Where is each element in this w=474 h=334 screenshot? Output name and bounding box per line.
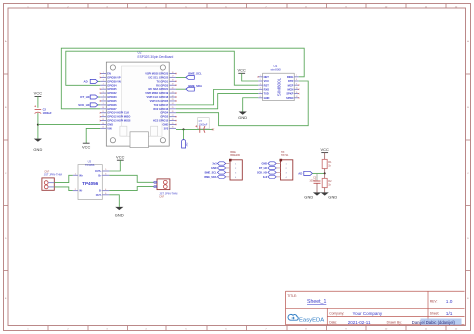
svg-text:17: 17 — [172, 76, 174, 78]
wire VCC to R1 — [324, 153, 326, 160]
ground GND (U1) — [238, 112, 247, 120]
svg-text:25: 25 — [172, 107, 174, 109]
capacitor C3 100nF — [309, 176, 320, 183]
svg-text:3: 3 — [105, 174, 106, 176]
svg-text:Date:: Date: — [329, 320, 337, 324]
svg-text:NET: NET — [264, 75, 270, 79]
svg-text:11: 11 — [296, 92, 298, 94]
svg-text:1: 1 — [260, 75, 261, 77]
svg-text:26: 26 — [172, 111, 174, 113]
svg-text:DTR: DTR — [288, 79, 293, 83]
svg-text:GPIO25: GPIO25 — [107, 99, 117, 103]
svg-text:Danijel Dabic (ddanijel): Danijel Dabic (ddanijel) — [412, 320, 456, 325]
header HX711 (HX) — [257, 151, 293, 180]
svg-text:VCC: VCC — [34, 91, 43, 96]
wire AD to node — [312, 172, 324, 174]
svg-text:23: 23 — [172, 99, 174, 101]
svg-text:8: 8 — [296, 79, 297, 81]
wire U1.RST to U2.GPIO34 (inner loop) — [66, 51, 258, 85]
svg-text:8: 8 — [103, 99, 104, 101]
power flag VCC (divider) — [320, 147, 329, 153]
svg-text:RX2 GPIO16: RX2 GPIO16 — [153, 107, 168, 111]
net flag AD (GPIO39) — [84, 79, 101, 83]
title block — [286, 291, 465, 325]
svg-text:TITLE:: TITLE: — [287, 294, 297, 298]
svg-text:1/1: 1/1 — [446, 311, 453, 317]
svg-text:VSPI CS GPIO5: VSPI CS GPIO5 — [150, 99, 169, 103]
svg-text:6: 6 — [260, 96, 261, 98]
svg-text:BME_SCL: BME_SCL — [205, 171, 217, 174]
svg-text:GND: GND — [304, 194, 313, 199]
svg-text:CN?: CN? — [159, 195, 164, 198]
svg-text:3v3: 3v3 — [212, 163, 217, 166]
capacitor C2 1000uF — [34, 105, 52, 115]
net flag BME_SCL (GPIO22) — [176, 71, 202, 79]
net flag SCK_HX (GPIO26) — [78, 103, 100, 107]
svg-text:GPIO14 HSPI CLK: GPIO14 HSPI CLK — [107, 111, 129, 115]
wire U2.TX2 to U1.RXD — [176, 89, 258, 104]
ground GND (C3) — [304, 192, 321, 199]
svg-text:2021-02-11: 2021-02-11 — [348, 320, 371, 325]
wire U2.3V3 to C7 — [176, 128, 213, 130]
svg-text:BME_SDA: BME_SDA — [188, 84, 202, 88]
svg-text:sim800l: sim800l — [271, 68, 282, 72]
svg-text:SPKN: SPKN — [286, 96, 293, 100]
svg-text:GPIO36 VP: GPIO36 VP — [107, 75, 121, 79]
svg-text:AD: AD — [84, 79, 88, 83]
svg-text:3v3: 3v3 — [186, 142, 189, 147]
svg-text:IN-: IN- — [79, 190, 82, 193]
svg-text:2: 2 — [260, 79, 261, 81]
svg-text:5: 5 — [260, 92, 261, 94]
capacitor C7 1000uF — [195, 118, 209, 133]
svg-text:7: 7 — [296, 75, 297, 77]
svg-text:20: 20 — [172, 87, 174, 89]
svg-text:28: 28 — [172, 119, 174, 121]
wire node to R2 — [324, 173, 326, 178]
svg-text:19: 19 — [172, 84, 174, 86]
svg-text:EN: EN — [107, 72, 111, 76]
net flag AD (divider) — [298, 171, 312, 175]
svg-text:22: 22 — [172, 95, 174, 97]
svg-text:3v3: 3v3 — [263, 176, 268, 179]
wire U3.B- to battery pin2 — [109, 187, 153, 191]
wire CN? pin1 to U3.IN+ — [54, 175, 73, 182]
svg-text:13: 13 — [102, 119, 104, 121]
svg-text:3V3: 3V3 — [164, 126, 169, 130]
svg-text:Company:: Company: — [329, 311, 344, 315]
svg-text:I2C SDA GPIO21: I2C SDA GPIO21 — [148, 87, 168, 91]
svg-text:5: 5 — [105, 169, 106, 171]
wire R1 to node — [324, 169, 326, 174]
svg-text:TXD: TXD — [264, 92, 269, 96]
wire U3.OUT- to ground — [109, 195, 119, 207]
svg-text:HX711: HX711 — [281, 154, 289, 157]
no-connect mark C7 end — [212, 128, 214, 130]
svg-text:BME_SDA: BME_SDA — [204, 176, 216, 179]
svg-text:GPIO27: GPIO27 — [107, 107, 117, 111]
GSM module U1 SIM800L — [258, 64, 300, 101]
header BME280 (BME) — [204, 151, 242, 180]
svg-text:Drawn By:: Drawn By: — [387, 320, 402, 324]
junction 3V3 node — [183, 128, 185, 130]
svg-text:EasyEDA: EasyEDA — [299, 317, 324, 323]
svg-text:OUT+: OUT+ — [95, 170, 102, 173]
svg-text:U3: U3 — [88, 159, 92, 163]
net flag DT_HX (GPIO33) — [80, 95, 100, 99]
svg-text:9: 9 — [296, 83, 297, 85]
wire U3.B+ to battery pin1 — [109, 175, 153, 182]
ground GND (left rail) — [33, 139, 42, 152]
connector CN? JST (input) — [42, 170, 63, 190]
svg-text:9: 9 — [103, 103, 104, 105]
wire C3 tap — [316, 173, 318, 181]
svg-text:GPIO12 HSPI MISO: GPIO12 HSPI MISO — [107, 115, 130, 119]
svg-text:TP4056: TP4056 — [82, 181, 99, 186]
svg-text:GPIO4: GPIO4 — [160, 111, 168, 115]
svg-text:Sheet:: Sheet: — [430, 311, 440, 315]
svg-text:GND: GND — [238, 115, 247, 120]
svg-text:VSPI CLK GPIO18: VSPI CLK GPIO18 — [147, 95, 169, 99]
ground GND (U3) — [115, 207, 124, 218]
svg-text:DT_HX: DT_HX — [259, 167, 268, 170]
svg-text:GND: GND — [115, 212, 124, 217]
svg-text:VIN: VIN — [107, 126, 111, 130]
svg-text:BME_SCL: BME_SCL — [188, 71, 202, 75]
svg-text:GPIO33: GPIO33 — [107, 95, 117, 99]
svg-text:GND: GND — [328, 194, 337, 199]
svg-text:SPKP: SPKP — [286, 92, 293, 96]
svg-text:GND: GND — [163, 122, 169, 126]
svg-text:29: 29 — [172, 123, 174, 125]
svg-text:3: 3 — [103, 80, 104, 82]
svg-text:11: 11 — [102, 111, 104, 113]
svg-text:1000uF: 1000uF — [43, 111, 52, 115]
svg-text:VCC: VCC — [320, 147, 329, 152]
svg-text:Sheet_1: Sheet_1 — [307, 299, 326, 305]
svg-text:I2C SCL GPIO22: I2C SCL GPIO22 — [149, 75, 169, 79]
svg-text:GND: GND — [262, 163, 268, 166]
wire U2.VIN to VCC — [86, 128, 100, 143]
svg-text:GPIO39 VN: GPIO39 VN — [107, 79, 121, 83]
wire U2.RX2 to U1.TXD — [176, 94, 258, 109]
svg-text:GPIO26: GPIO26 — [107, 103, 117, 107]
svg-text:7: 7 — [103, 95, 104, 97]
svg-text:DT_HX: DT_HX — [80, 95, 89, 99]
connector CN? JST (battery) — [153, 179, 178, 199]
svg-text:ESP32S 30pin DevBoard: ESP32S 30pin DevBoard — [138, 55, 174, 59]
svg-text:18: 18 — [172, 80, 174, 82]
svg-text:30: 30 — [172, 127, 174, 129]
svg-text:B-: B- — [99, 190, 102, 193]
svg-text:MCP: MCP — [288, 83, 294, 87]
svg-text:SIM800L: SIM800L — [277, 77, 282, 96]
svg-text:1: 1 — [75, 174, 76, 176]
svg-text:MCN: MCN — [287, 87, 293, 91]
wire CN? pin2 to U3.IN- — [54, 187, 73, 191]
svg-text:GND: GND — [107, 122, 113, 126]
svg-text:RING: RING — [287, 75, 293, 79]
svg-text:RXD: RXD — [264, 87, 270, 91]
wire VCC to U3.OUT+ — [109, 160, 120, 171]
power flag VCC (VIN, rotated) — [82, 143, 91, 149]
svg-text:GPIO35: GPIO35 — [107, 87, 117, 91]
svg-text:SCK_HX: SCK_HX — [78, 103, 89, 107]
svg-text:IN+: IN+ — [79, 174, 83, 177]
svg-text:15: 15 — [102, 127, 104, 129]
svg-text:RX GPIO3: RX GPIO3 — [156, 83, 169, 87]
svg-text:C?: C? — [199, 119, 203, 123]
svg-text:JST JPIN-THM: JST JPIN-THM — [44, 173, 63, 177]
svg-text:VCC: VCC — [82, 144, 91, 149]
wire C3 to ground — [316, 183, 318, 192]
svg-text:4: 4 — [103, 84, 104, 86]
svg-text:GPIO13 HSPI MOSI: GPIO13 HSPI MOSI — [107, 119, 130, 123]
wire 3V3 to port — [183, 129, 185, 139]
svg-text:3: 3 — [260, 83, 261, 85]
svg-text:10: 10 — [296, 88, 298, 90]
resistor R2 1k — [322, 178, 332, 187]
svg-text:TX2 GPIO17: TX2 GPIO17 — [154, 103, 169, 107]
net port 3v3 — [182, 140, 189, 148]
svg-text:VSPI MOSI GPIO23: VSPI MOSI GPIO23 — [145, 72, 169, 76]
svg-text:6: 6 — [103, 91, 104, 93]
power flag VCC (U3 OUT+) — [116, 154, 125, 160]
svg-text:10: 10 — [102, 107, 104, 109]
svg-text:12: 12 — [102, 115, 104, 117]
svg-text:VCC: VCC — [116, 154, 125, 159]
charger module U3 TP4056 — [73, 159, 110, 199]
ground GND (R2) — [321, 192, 338, 199]
svg-text:TP4056: TP4056 — [85, 163, 95, 167]
ESP32 DevKit module U2 — [100, 51, 177, 148]
wire U2.GPIO4 to U1.DTR — [176, 81, 308, 126]
svg-text:GPIO34: GPIO34 — [107, 83, 117, 87]
svg-text:4: 4 — [105, 189, 106, 191]
svg-text:GPIO2: GPIO2 — [160, 115, 168, 119]
svg-text:2: 2 — [75, 189, 76, 191]
svg-text:5: 5 — [103, 87, 104, 89]
svg-text:1: 1 — [103, 72, 104, 74]
svg-text:HCS GPIO15: HCS GPIO15 — [153, 119, 169, 123]
wire GND rail to U2 GND pin — [38, 124, 100, 126]
junction GND rail — [37, 124, 39, 126]
wire U1.GND to ground — [243, 98, 259, 112]
svg-text:27: 27 — [172, 115, 174, 117]
svg-text:6: 6 — [105, 193, 106, 195]
svg-text:4: 4 — [260, 88, 261, 90]
net flag BME_SDA (GPIO21) — [176, 84, 202, 91]
svg-text:GND: GND — [211, 167, 217, 170]
svg-text:24: 24 — [172, 103, 174, 105]
wire U1.RING to U2.GPIO27 (outer loop) — [61, 48, 304, 109]
svg-text:21: 21 — [172, 91, 174, 93]
wire C2 to GND — [37, 113, 39, 139]
svg-text:1.0: 1.0 — [446, 299, 453, 305]
svg-text:14: 14 — [102, 123, 104, 125]
svg-text:2: 2 — [103, 76, 104, 78]
wire R2 to ground — [324, 188, 326, 193]
svg-text:AD: AD — [298, 172, 302, 176]
resistor R1 1k — [322, 159, 332, 168]
svg-text:VSPI MISO GPIO19: VSPI MISO GPIO19 — [145, 91, 169, 95]
svg-text:GND: GND — [33, 147, 42, 152]
wire VCC to U1.VCC — [242, 73, 259, 81]
svg-text:SCK_HX: SCK_HX — [257, 171, 267, 174]
svg-text:GPIO32: GPIO32 — [107, 91, 117, 95]
power flag VCC (input rail) — [34, 91, 43, 108]
svg-text:BME280: BME280 — [230, 154, 240, 157]
svg-text:GND: GND — [264, 96, 270, 100]
power flag VCC (U1) — [237, 68, 246, 74]
svg-text:REV:: REV: — [430, 299, 438, 303]
svg-text:12: 12 — [296, 96, 298, 98]
svg-text:VCC: VCC — [237, 68, 246, 73]
svg-text:RST: RST — [264, 83, 270, 87]
svg-text:16: 16 — [172, 72, 174, 74]
svg-text:VCC: VCC — [264, 79, 270, 83]
svg-text:Your Company: Your Company — [353, 311, 383, 316]
svg-text:OUT-: OUT- — [96, 194, 102, 197]
svg-text:TX GPIO1: TX GPIO1 — [156, 79, 168, 83]
junction divider node — [324, 172, 326, 174]
